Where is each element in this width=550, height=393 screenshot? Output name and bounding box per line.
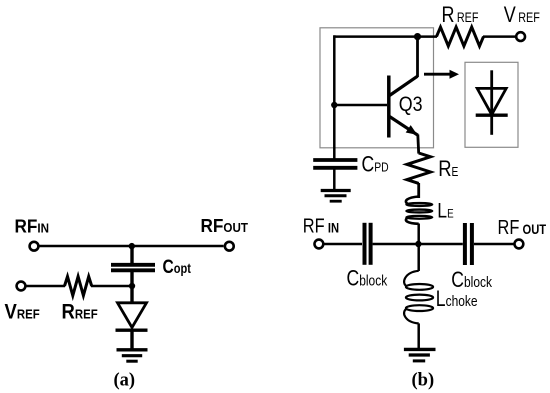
box equivalent diode bbox=[465, 62, 518, 147]
wire base (b) bbox=[334, 104, 387, 107]
wire L_choke to ground bbox=[417, 323, 420, 350]
arrow to equivalent diode bbox=[424, 70, 459, 79]
wire R_REF to V_REF terminal (b) bbox=[483, 35, 516, 38]
node base junction (b) bbox=[331, 102, 337, 108]
inductor L_choke bbox=[404, 271, 433, 324]
wire C_block right to RF_OUT bbox=[474, 243, 514, 246]
wire L_E to junction bbox=[417, 224, 420, 246]
resistor R_REF (a) bbox=[65, 277, 92, 296]
capacitor C_PD bbox=[313, 160, 357, 168]
wire C_block left to junction bbox=[373, 243, 419, 246]
capacitor C_block right bbox=[465, 223, 472, 265]
box around Q3 bbox=[320, 28, 434, 148]
wire C_PD to ground (b) bbox=[333, 169, 336, 190]
node center junction (b) bbox=[415, 241, 421, 247]
ground (a) bbox=[117, 350, 148, 361]
node collector junction (b) bbox=[414, 33, 421, 40]
transistor Q3 bbox=[389, 37, 418, 138]
wire diode to ground (a) bbox=[130, 330, 133, 350]
wire left rail down (b) bbox=[333, 35, 336, 158]
node junction mid (a) bbox=[129, 283, 135, 289]
wire RF_IN to RF_OUT (a) bbox=[39, 245, 224, 248]
resistor R_E bbox=[407, 153, 431, 183]
wire junction to C_opt (a) bbox=[130, 246, 133, 264]
terminal V_REF (b) bbox=[516, 32, 525, 41]
resistor R_REF (b) bbox=[437, 27, 484, 46]
wire R_E to L_E bbox=[417, 183, 420, 198]
wire node to diode (a) bbox=[130, 286, 133, 303]
wire junction to L_choke bbox=[417, 244, 420, 271]
terminal RF_OUT (a) bbox=[225, 242, 234, 251]
svg-text:(b): (b) bbox=[412, 370, 435, 390]
wire RF_IN to C_block left bbox=[325, 243, 363, 246]
terminal RF_OUT (b) bbox=[515, 240, 524, 249]
terminal V_REF (a) bbox=[17, 282, 26, 291]
equivalent diode bbox=[476, 70, 508, 135]
capacitor C_opt bbox=[111, 265, 155, 271]
wire emitter to R_E bbox=[416, 135, 420, 154]
ground under C_PD bbox=[321, 191, 351, 202]
wire V_REF to R_REF (a) bbox=[26, 285, 65, 288]
capacitor C_block left bbox=[365, 223, 371, 265]
inductor L_E bbox=[406, 197, 432, 224]
wire R_REF to node (a) bbox=[91, 285, 132, 288]
node junction top (a) bbox=[129, 243, 135, 249]
svg-text:(a): (a) bbox=[114, 370, 136, 390]
ground bottom (b) bbox=[404, 349, 436, 361]
svg-text:Q3: Q3 bbox=[399, 93, 423, 117]
diode D1 (a) bbox=[116, 303, 148, 330]
terminal RF_IN (b) bbox=[315, 240, 324, 249]
wire C_opt to node (a) bbox=[130, 271, 133, 286]
wire top rail (b) bbox=[334, 35, 437, 38]
terminal RF_IN (a) bbox=[30, 242, 39, 251]
wire junction to C_block right bbox=[419, 243, 463, 246]
